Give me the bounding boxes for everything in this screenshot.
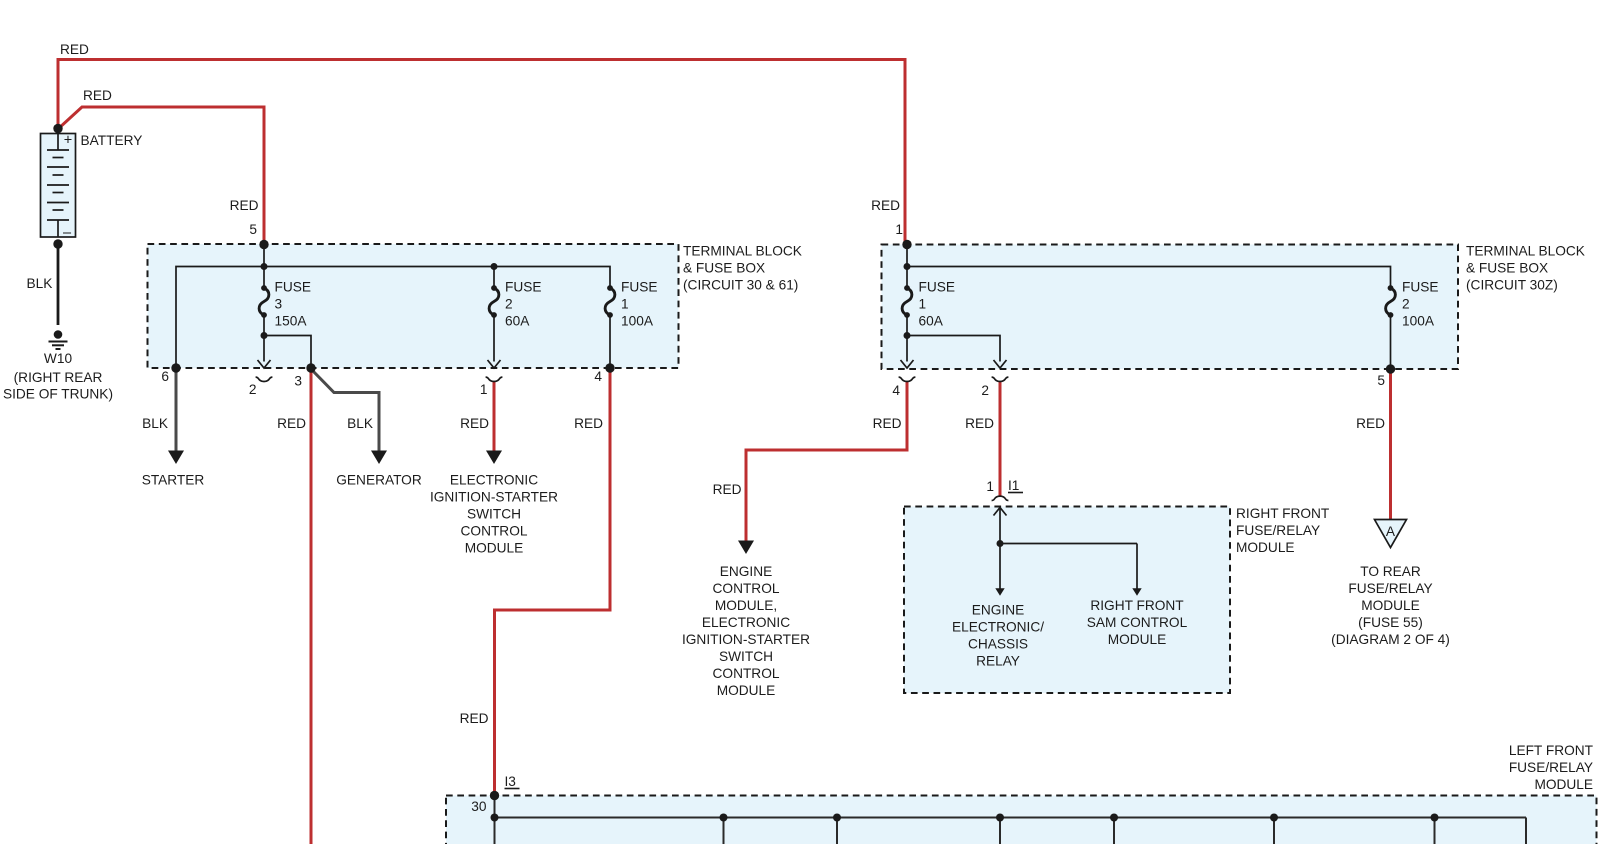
svg-text:RED: RED (871, 198, 900, 213)
svg-text:& FUSE BOX: & FUSE BOX (683, 261, 765, 276)
svg-text:RED: RED (277, 416, 306, 431)
svg-text:RED: RED (83, 88, 112, 103)
svg-text:ELECTRONIC: ELECTRONIC (702, 615, 790, 630)
svg-text:TO REAR: TO REAR (1360, 564, 1421, 579)
svg-text:RED: RED (965, 416, 994, 431)
svg-text:FUSE/RELAY: FUSE/RELAY (1236, 523, 1320, 538)
svg-text:IGNITION-STARTER: IGNITION-STARTER (682, 632, 810, 647)
svg-text:RED: RED (460, 711, 489, 726)
svg-text:FUSE: FUSE (1402, 280, 1439, 295)
svg-text:ELECTRONIC: ELECTRONIC (450, 473, 538, 488)
svg-text:1: 1 (919, 297, 927, 312)
svg-text:2: 2 (1402, 297, 1410, 312)
svg-text:FUSE: FUSE (275, 280, 312, 295)
svg-text:FUSE: FUSE (621, 280, 658, 295)
svg-text:(RIGHT REAR: (RIGHT REAR (14, 370, 103, 385)
svg-text:ENGINE: ENGINE (720, 564, 772, 579)
svg-text:(FUSE 55): (FUSE 55) (1358, 615, 1423, 630)
svg-text:LEFT FRONT: LEFT FRONT (1509, 743, 1594, 758)
svg-text:RIGHT FRONT: RIGHT FRONT (1090, 598, 1184, 613)
svg-text:SIDE OF TRUNK): SIDE OF TRUNK) (3, 387, 113, 402)
svg-text:BATTERY: BATTERY (81, 133, 143, 148)
svg-text:30: 30 (471, 799, 487, 814)
svg-text:2: 2 (505, 297, 513, 312)
svg-text:MODULE: MODULE (717, 683, 776, 698)
svg-text:–: – (63, 225, 72, 241)
svg-text:MODULE: MODULE (1361, 598, 1420, 613)
svg-text:(CIRCUIT 30Z): (CIRCUIT 30Z) (1466, 278, 1558, 293)
svg-text:BLK: BLK (27, 276, 53, 291)
svg-text:6: 6 (161, 369, 169, 384)
svg-text:(DIAGRAM 2 OF 4): (DIAGRAM 2 OF 4) (1331, 632, 1450, 647)
svg-text:1: 1 (895, 222, 903, 237)
svg-text:RED: RED (460, 416, 489, 431)
svg-text:CHASSIS: CHASSIS (968, 637, 1028, 652)
svg-text:& FUSE BOX: & FUSE BOX (1466, 261, 1548, 276)
svg-text:+: + (64, 133, 72, 149)
svg-text:5: 5 (1377, 373, 1385, 388)
svg-text:1: 1 (986, 479, 994, 494)
svg-text:TERMINAL BLOCK: TERMINAL BLOCK (683, 244, 802, 259)
svg-text:MODULE: MODULE (1108, 632, 1167, 647)
svg-text:BLK: BLK (142, 416, 168, 431)
svg-text:3: 3 (294, 374, 302, 389)
svg-text:MODULE: MODULE (1236, 540, 1295, 555)
svg-text:ELECTRONIC/: ELECTRONIC/ (952, 620, 1044, 635)
svg-text:RED: RED (1356, 416, 1385, 431)
svg-text:MODULE: MODULE (465, 541, 524, 556)
svg-text:150A: 150A (275, 314, 308, 329)
svg-text:CONTROL: CONTROL (461, 524, 528, 539)
svg-text:SAM CONTROL: SAM CONTROL (1087, 615, 1188, 630)
svg-text:RED: RED (574, 416, 603, 431)
svg-text:I1: I1 (1008, 478, 1019, 493)
svg-text:100A: 100A (621, 314, 654, 329)
svg-text:W10: W10 (44, 351, 73, 366)
svg-text:TERMINAL BLOCK: TERMINAL BLOCK (1466, 244, 1585, 259)
svg-text:4: 4 (594, 369, 602, 384)
svg-text:I3: I3 (505, 774, 517, 789)
svg-text:(CIRCUIT 30 & 61): (CIRCUIT 30 & 61) (683, 278, 798, 293)
svg-text:GENERATOR: GENERATOR (336, 473, 422, 488)
svg-text:2: 2 (981, 383, 989, 398)
svg-text:1: 1 (480, 382, 488, 397)
svg-text:5: 5 (249, 222, 257, 237)
svg-text:MODULE: MODULE (1534, 777, 1593, 792)
svg-text:1: 1 (621, 297, 629, 312)
svg-text:60A: 60A (919, 314, 944, 329)
svg-text:RED: RED (873, 416, 902, 431)
svg-text:MODULE,: MODULE, (715, 598, 777, 613)
svg-text:ENGINE: ENGINE (972, 603, 1024, 618)
svg-text:FUSE: FUSE (505, 280, 542, 295)
svg-text:RED: RED (713, 482, 742, 497)
svg-text:100A: 100A (1402, 314, 1435, 329)
svg-text:RIGHT FRONT: RIGHT FRONT (1236, 506, 1330, 521)
svg-text:A: A (1386, 524, 1396, 539)
svg-text:RED: RED (230, 198, 259, 213)
svg-text:FUSE/RELAY: FUSE/RELAY (1509, 760, 1593, 775)
svg-text:4: 4 (892, 383, 900, 398)
svg-text:BLK: BLK (347, 416, 373, 431)
svg-text:RELAY: RELAY (976, 654, 1020, 669)
svg-text:60A: 60A (505, 314, 530, 329)
svg-text:FUSE/RELAY: FUSE/RELAY (1348, 581, 1432, 596)
svg-text:3: 3 (275, 297, 283, 312)
svg-text:CONTROL: CONTROL (713, 666, 780, 681)
svg-text:SWITCH: SWITCH (719, 649, 773, 664)
svg-text:STARTER: STARTER (142, 473, 205, 488)
svg-text:SWITCH: SWITCH (467, 507, 521, 522)
svg-text:2: 2 (249, 382, 257, 397)
svg-text:FUSE: FUSE (919, 280, 956, 295)
svg-text:IGNITION-STARTER: IGNITION-STARTER (430, 490, 558, 505)
svg-text:CONTROL: CONTROL (713, 581, 780, 596)
svg-text:RED: RED (60, 42, 89, 57)
